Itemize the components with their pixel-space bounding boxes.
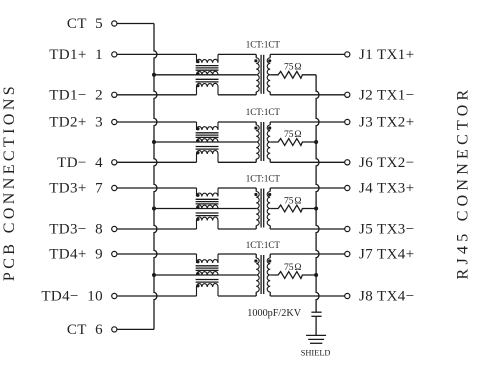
svg-text:RJ45 CONNECTOR: RJ45 CONNECTOR xyxy=(454,86,471,280)
transformer T3 1CT:1CT xyxy=(254,188,271,229)
svg-text:1CT:1CT: 1CT:1CT xyxy=(246,40,281,50)
wire primary center tap xyxy=(154,274,256,276)
junction resistor R3 to termination bus xyxy=(314,207,318,211)
junction center tap to CT bus xyxy=(152,207,156,211)
wire TD1- to choke xyxy=(117,94,197,96)
common-mode choke L1 xyxy=(196,54,219,94)
node J2 terminal pin xyxy=(345,92,350,97)
wire secondary to J5 xyxy=(270,228,345,230)
node TD3+ terminal pin xyxy=(112,185,117,190)
svg-text:SHIELD: SHIELD xyxy=(301,348,331,357)
wire secondary to J8 xyxy=(270,295,345,297)
transformer T2 1CT:1CT xyxy=(254,122,271,162)
node TD2- terminal pin xyxy=(112,160,117,165)
svg-text:TD4− 10: TD4− 10 xyxy=(41,289,103,305)
svg-text:75 Ω: 75 Ω xyxy=(284,262,302,273)
wire CT bus (center-tap bus, pins 5-6) xyxy=(154,24,157,330)
svg-text:TD3+ 7: TD3+ 7 xyxy=(49,181,103,197)
wire choke to transformer (-) xyxy=(218,295,256,297)
svg-text:J3 TX2+: J3 TX2+ xyxy=(359,115,415,131)
capacitor C1 1000pF/2KV xyxy=(247,308,321,335)
wire choke to transformer (+) xyxy=(218,53,256,55)
wire primary center tap xyxy=(154,74,256,76)
node J3 terminal pin xyxy=(345,119,350,124)
wire TD4+ to choke xyxy=(117,253,197,255)
wire TD3+ to choke xyxy=(117,187,197,189)
svg-text:J1 TX1+: J1 TX1+ xyxy=(359,47,415,63)
svg-text:CT 5: CT 5 xyxy=(67,16,103,32)
svg-text:TD− 4: TD− 4 xyxy=(57,155,103,171)
node J4 terminal pin xyxy=(345,185,350,190)
junction center tap to CT bus xyxy=(152,273,156,277)
svg-text:1000pF/2KV: 1000pF/2KV xyxy=(247,308,301,319)
wire termination bus to shield capacitor xyxy=(316,75,319,312)
wire secondary to J6 xyxy=(270,161,345,163)
svg-text:75 Ω: 75 Ω xyxy=(284,129,302,140)
node J1 terminal pin xyxy=(345,52,350,57)
svg-text:CT 6: CT 6 xyxy=(67,322,103,338)
wire CT6 to bus xyxy=(117,328,154,330)
svg-text:1CT:1CT: 1CT:1CT xyxy=(246,240,281,250)
ground SHIELD chassis symbol xyxy=(301,335,331,357)
resistor R2 75 ohm xyxy=(270,129,316,146)
wire secondary to J3 xyxy=(270,121,345,123)
svg-text:J4 TX3+: J4 TX3+ xyxy=(359,181,415,197)
svg-text:J8 TX4−: J8 TX4− xyxy=(359,289,415,305)
resistor R4 75 ohm xyxy=(270,262,316,279)
wire TD3- to choke xyxy=(117,228,197,230)
wire primary center tap xyxy=(154,141,256,143)
junction resistor R4 to termination bus xyxy=(314,273,318,277)
svg-text:TD4+ 9: TD4+ 9 xyxy=(49,247,103,263)
wire TD1+ to choke xyxy=(117,53,197,55)
wire choke to transformer (+) xyxy=(218,121,256,123)
node J5 terminal pin xyxy=(345,226,350,231)
svg-text:1CT:1CT: 1CT:1CT xyxy=(246,107,281,117)
junction resistor R2 to termination bus xyxy=(314,140,318,144)
wire choke to transformer (+) xyxy=(218,253,256,255)
svg-text:PCB CONNECTIONS: PCB CONNECTIONS xyxy=(1,83,18,281)
resistor R1 75 ohm xyxy=(270,62,316,79)
node TD4- terminal pin xyxy=(112,293,117,298)
common-mode choke L3 xyxy=(196,188,219,229)
node TD4+ terminal pin xyxy=(112,251,117,256)
svg-text:TD1− 2: TD1− 2 xyxy=(49,87,103,103)
wire TD2- to choke xyxy=(117,161,197,163)
wire CT5 to bus xyxy=(117,23,154,25)
node J7 terminal pin xyxy=(345,251,350,256)
svg-text:1CT:1CT: 1CT:1CT xyxy=(246,173,281,183)
node TD2+ terminal pin xyxy=(112,119,117,124)
resistor R3 75 ohm xyxy=(270,195,316,212)
wire primary center tap xyxy=(154,208,256,210)
svg-text:75 Ω: 75 Ω xyxy=(284,62,302,73)
wire TD4- to choke xyxy=(117,295,197,297)
node TD1- terminal pin xyxy=(112,92,117,97)
junction center tap to CT bus xyxy=(152,73,156,77)
node TD3- terminal pin xyxy=(112,226,117,231)
junction center tap to CT bus xyxy=(152,140,156,144)
transformer T1 1CT:1CT xyxy=(254,54,271,94)
svg-text:75 Ω: 75 Ω xyxy=(284,195,302,206)
svg-text:TD1+ 1: TD1+ 1 xyxy=(49,47,103,63)
wire secondary to J1 xyxy=(270,53,345,55)
wire TD2+ to choke xyxy=(117,121,197,123)
wire secondary to J4 xyxy=(270,187,345,189)
svg-text:J7 TX4+: J7 TX4+ xyxy=(359,247,415,263)
wire choke to transformer (-) xyxy=(218,161,256,163)
wire choke to transformer (-) xyxy=(218,228,256,230)
svg-text:J2 TX1−: J2 TX1− xyxy=(359,87,415,103)
transformer T4 1CT:1CT xyxy=(254,254,271,296)
svg-text:TD2+ 3: TD2+ 3 xyxy=(49,115,103,131)
wire secondary to J2 xyxy=(270,94,345,96)
node TD1+ terminal pin xyxy=(112,52,117,57)
pin CT 5 terminal xyxy=(112,21,117,26)
svg-text:TD3− 8: TD3− 8 xyxy=(49,222,103,238)
node J8 terminal pin xyxy=(345,293,350,298)
common-mode choke L4 xyxy=(196,254,219,296)
svg-text:J5 TX3−: J5 TX3− xyxy=(359,222,415,238)
wire choke to transformer (+) xyxy=(218,187,256,189)
svg-text:J6 TX2−: J6 TX2− xyxy=(359,155,415,171)
wire choke to transformer (-) xyxy=(218,94,256,96)
wire secondary to J7 xyxy=(270,253,345,255)
common-mode choke L2 xyxy=(196,122,219,162)
pin CT 6 terminal xyxy=(112,327,117,332)
node J6 terminal pin xyxy=(345,160,350,165)
